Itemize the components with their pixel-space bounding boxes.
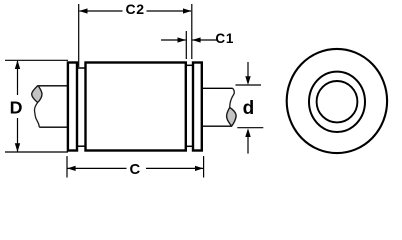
- extension line C2/C1 right: [191, 4, 193, 59]
- arrowhead D down: [15, 143, 20, 152]
- dimension line d top: [247, 62, 249, 78]
- dimension line D upper segment: [17, 61, 19, 95]
- arrowhead D up: [15, 60, 20, 69]
- dimension line C left segment: [67, 167, 126, 169]
- inner ring surface bottom-right (in gap): [187, 145, 194, 147]
- left end plate: [68, 63, 77, 151]
- left shaft top edge: [38, 85, 69, 87]
- left shaft bottom edge: [39, 126, 68, 128]
- extension line C2 left: [78, 4, 80, 67]
- dimension line C right segment: [146, 167, 203, 169]
- svg-text:C: C: [130, 162, 141, 178]
- dimension line C1 right shaft: [192, 39, 216, 41]
- right end plate: [193, 63, 202, 151]
- arrowhead C1 pointing left: [192, 37, 200, 42]
- arrowhead d down: [245, 76, 250, 85]
- right shaft break blob: [227, 108, 237, 127]
- inner ring surface top-right (in gap): [187, 64, 194, 66]
- arrowhead C left: [67, 166, 75, 171]
- arrowhead C2 left: [79, 8, 87, 13]
- svg-text:C1: C1: [215, 31, 234, 46]
- arrowhead C2 right: [183, 8, 191, 13]
- arrowhead C1 pointing right: [178, 37, 186, 42]
- dimension line C1 arrow-left shaft: [161, 39, 186, 41]
- dimension line d bottom: [247, 136, 249, 154]
- extension line D bottom: [5, 151, 68, 153]
- svg-text:d: d: [243, 98, 255, 119]
- extension line d top: [236, 84, 262, 86]
- extension line C left: [66, 156, 68, 177]
- end view middle circle: [309, 72, 365, 132]
- extension line C1 left: [185, 31, 187, 59]
- extension line d bottom: [237, 127, 263, 129]
- end view outer circle: [287, 49, 387, 153]
- end view inner circle (bore): [317, 81, 358, 122]
- arrowhead C right: [195, 166, 203, 171]
- right shaft bottom edge: [202, 125, 232, 127]
- dimension line D lower segment: [17, 118, 19, 152]
- right shaft break line upper: [230, 88, 235, 107]
- right shaft top edge: [202, 87, 233, 89]
- extension line C right: [203, 156, 205, 177]
- left shaft break line lower: [34, 102, 39, 127]
- arrowhead d up: [245, 128, 250, 137]
- svg-text:C2: C2: [125, 1, 144, 17]
- dimension line C2 left segment: [80, 10, 123, 12]
- left shaft break blob: [32, 86, 42, 102]
- dimension line C2 right segment: [147, 10, 192, 12]
- inner ring surface top-left (in gap): [77, 67, 85, 69]
- extension line D top: [5, 59, 68, 61]
- roller body: [86, 63, 186, 151]
- svg-text:D: D: [10, 97, 23, 117]
- inner ring surface bottom-left (in gap): [77, 145, 85, 147]
